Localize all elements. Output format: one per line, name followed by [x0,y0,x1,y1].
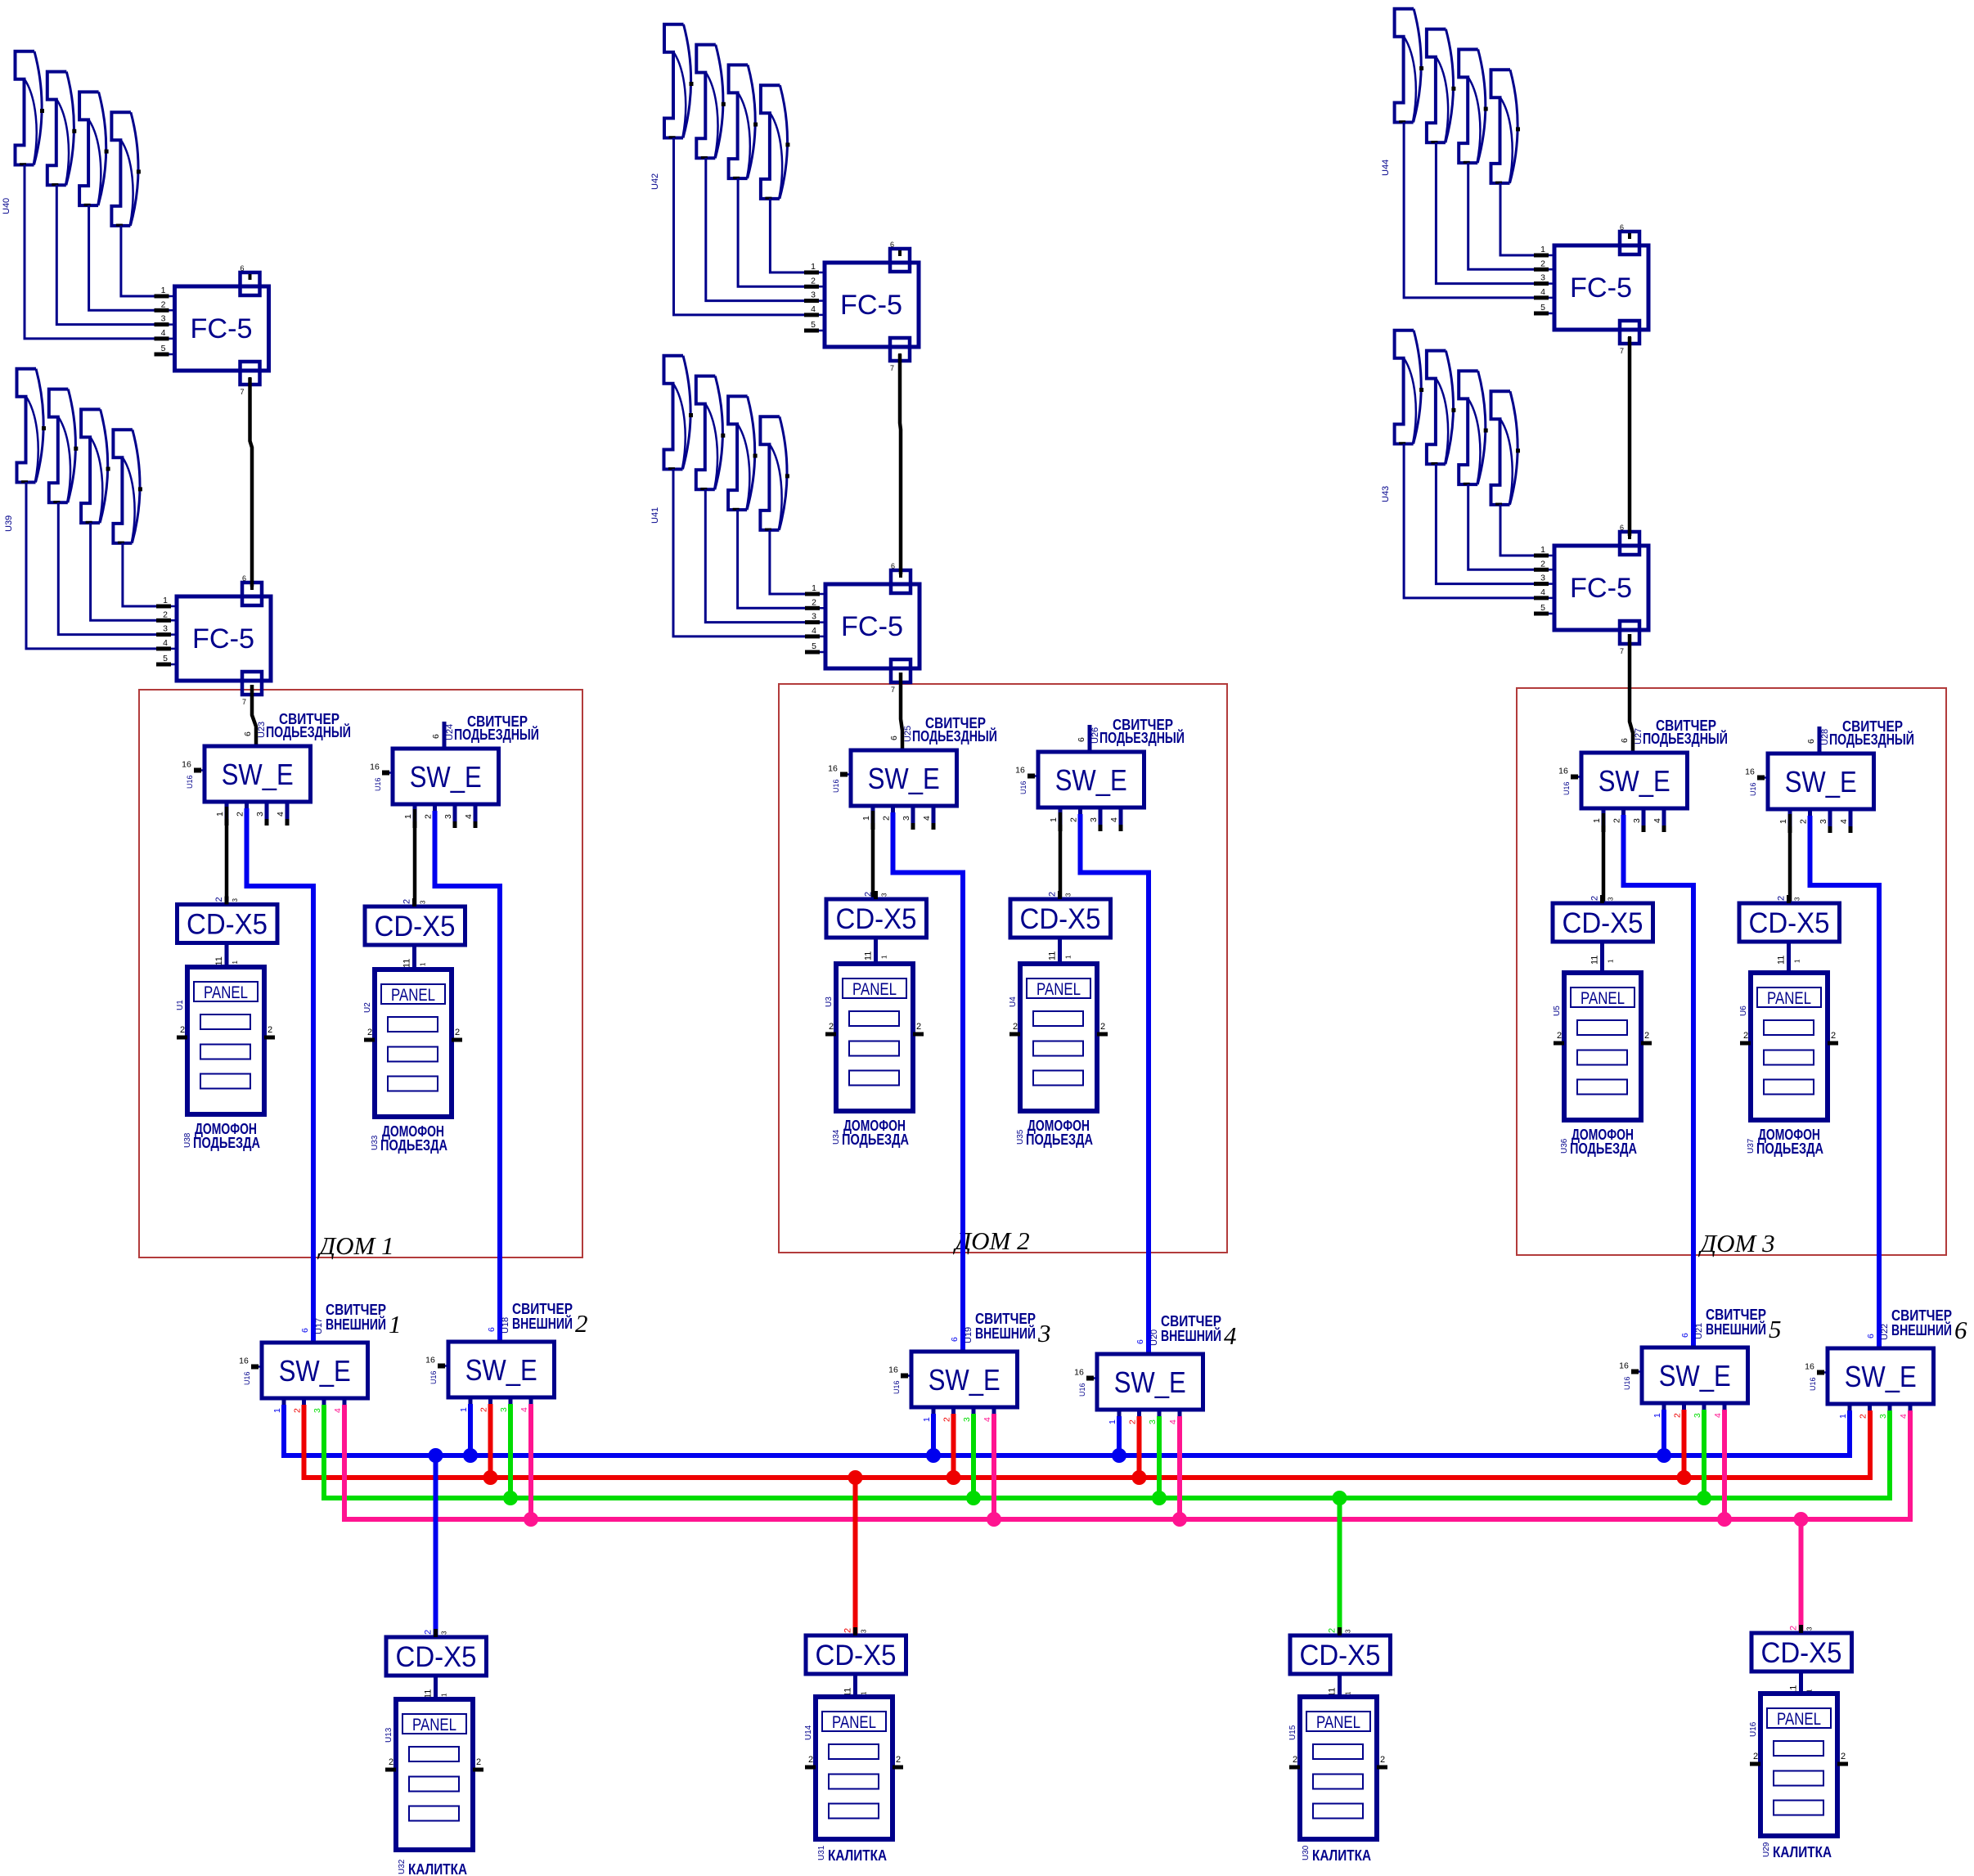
handset U41 tube 2 [696,376,726,490]
svg-text:1: 1 [1049,817,1059,822]
svg-text:6: 6 [1620,223,1624,232]
svg-text:2: 2 [1069,817,1079,822]
svg-text:4: 4 [1899,1414,1909,1419]
svg-text:11: 11 [402,959,412,968]
svg-text:PANEL: PANEL [391,986,435,1005]
svg-text:1: 1 [922,1417,932,1422]
svg-text:U15: U15 [1288,1725,1297,1740]
svg-text:4: 4 [161,328,166,338]
svg-text:1: 1 [1838,1414,1848,1419]
svg-text:U1: U1 [176,1000,185,1010]
wire U43 tube 2 to FC-5 [1436,464,1535,584]
svg-text:U14: U14 [804,1725,813,1740]
svg-text:SW_E: SW_E [222,758,294,791]
wire SW_E pin2 house 1R to external SW_E U18 (blue) [435,811,501,1342]
svg-text:2: 2 [1743,1031,1748,1041]
svg-text:7: 7 [890,364,894,372]
wire stub SW_E U24 pin 6 [443,722,447,749]
svg-text:U22: U22 [1880,1324,1890,1340]
svg-text:3: 3 [1065,893,1072,897]
svg-text:2: 2 [424,1630,434,1635]
svg-text:ПОДЬЕЗДА: ПОДЬЕЗДА [1026,1131,1093,1148]
svg-text:ВНЕШНИЙ: ВНЕШНИЙ [975,1325,1036,1342]
svg-text:ПОДЬЕЗДА: ПОДЬЕЗДА [193,1134,260,1151]
svg-text:КАЛИТКА: КАЛИТКА [1312,1847,1371,1864]
svg-text:2: 2 [268,1025,272,1035]
svg-text:CD-X5: CD-X5 [1300,1640,1381,1671]
handset U41 tube 3 [728,396,758,510]
svg-text:2: 2 [829,1022,834,1032]
wire blue bus to gate CD-X5 U13 [434,1455,438,1637]
svg-text:2: 2 [293,1408,303,1413]
label СВИТЧЕР ПОДЬЕЗДНЫЙ at U28 [1829,718,1914,748]
svg-text:4: 4 [1839,819,1849,824]
svg-text:4: 4 [1540,587,1545,597]
svg-text:1: 1 [861,816,871,821]
svg-text:16: 16 [1619,1361,1629,1371]
handset U43 tube 2 [1427,351,1456,465]
handset U44 tube 1 [1395,9,1424,123]
svg-text:7: 7 [891,686,895,694]
intercom panel house3R [1739,973,1838,1120]
svg-text:3: 3 [1608,897,1615,901]
svg-text:U16: U16 [1078,1383,1086,1397]
switcher SW_E U25 [828,726,956,830]
svg-text:16: 16 [1074,1368,1084,1378]
switcher SW_E U28 [1745,729,1873,833]
svg-text:2: 2 [1100,1022,1105,1032]
bus wire 3 (green) with end risers [324,1405,1890,1498]
svg-text:3: 3 [420,900,427,904]
svg-text:2: 2 [942,1417,952,1422]
svg-text:CD-X5: CD-X5 [1749,907,1830,939]
switcher SW_E U20 [1074,1329,1203,1433]
wire SW_E U20 pin4 to mag bus [1177,1416,1182,1519]
distributor CD-X5 house3R [1739,895,1840,965]
wire mag bus to gate CD-X5 U16 [1799,1519,1804,1633]
svg-text:1: 1 [1592,818,1602,823]
wire SW_E U18 pin2 to red bus [488,1404,493,1478]
junction mag bus / U21 pin4 [1717,1512,1732,1527]
svg-text:4: 4 [519,1407,529,1412]
svg-text:CD-X5: CD-X5 [1563,907,1644,939]
svg-text:6: 6 [890,241,894,249]
svg-text:4: 4 [276,812,286,817]
svg-text:6: 6 [487,1327,497,1332]
wire U39 tube 1 to FC-5 [26,482,157,649]
svg-text:2: 2 [1859,1414,1868,1419]
svg-text:3: 3 [881,893,888,897]
intercom panel gate-U13 [384,1699,483,1850]
svg-text:ВНЕШНИЙ: ВНЕШНИЙ [1891,1321,1952,1338]
wire CD-X5 to PANEL gate U13 [434,1676,438,1699]
svg-text:3: 3 [1037,1319,1051,1347]
junction mag bus / U20 pin4 [1172,1512,1187,1527]
svg-text:3: 3 [811,290,816,300]
intercom panel house1L [176,967,275,1114]
svg-text:5: 5 [812,641,816,651]
label КАЛИТКА U15 [1302,1845,1371,1864]
svg-text:1: 1 [232,960,239,965]
svg-text:6: 6 [891,562,895,570]
svg-text:6: 6 [1806,739,1816,744]
svg-text:U2: U2 [363,1002,372,1013]
svg-text:2: 2 [1644,1031,1649,1041]
svg-text:4: 4 [1540,287,1545,297]
svg-text:U43: U43 [1381,486,1391,502]
junction green bus / U20 pin3 [1152,1491,1167,1505]
svg-text:КАЛИТКА: КАЛИТКА [408,1860,467,1876]
wire U40 tube 4 to FC-5 [121,225,155,296]
distributor CD-X5 gate-U15 [1290,1627,1391,1697]
svg-text:ПОДЬЕЗДНЫЙ: ПОДЬЕЗДНЫЙ [454,726,539,743]
label СВИТЧЕР ПОДЬЕЗДНЫЙ at U26 [1099,717,1185,746]
svg-text:6: 6 [1077,737,1086,742]
svg-text:2: 2 [402,899,412,904]
svg-text:2: 2 [864,892,874,897]
bus wire 4 (magenta) with end risers [344,1405,1910,1519]
svg-text:ДОМ 1: ДОМ 1 [317,1231,393,1260]
svg-text:1: 1 [161,286,166,295]
wire SW_E U21 pin3 to green bus [1702,1410,1706,1498]
handset U41 tube 1 [664,356,694,470]
svg-text:6: 6 [1866,1334,1876,1338]
svg-text:1: 1 [272,1408,282,1413]
svg-text:3: 3 [812,612,816,622]
label СВИТЧЕР ВНЕШНИЙ 2 [512,1301,588,1338]
svg-text:3: 3 [1540,273,1545,283]
handset U40 tube 4 [111,112,141,226]
house block boundary ДОМ 1 [139,690,582,1257]
svg-text:3: 3 [313,1408,322,1413]
label СВИТЧЕР ВНЕШНИЙ 4 [1161,1313,1237,1350]
wire FC-5 B to SW_E U25 house 2 [901,673,902,750]
wire FC-5 A to FC-5 B house 1 [250,378,253,587]
svg-text:5: 5 [1540,603,1545,613]
wire U42 tube 2 to FC-5 [706,158,805,301]
wire U41 tube 4 to FC-5 [770,529,806,594]
svg-text:FC-5: FC-5 [192,623,254,655]
svg-text:2: 2 [1753,1752,1758,1761]
svg-text:2: 2 [811,276,816,286]
wire CD-X5 to PANEL house 2L [874,938,878,964]
svg-text:CD-X5: CD-X5 [1020,903,1101,935]
wire SW_E pin2 house 1L to external SW_E U17 (blue) [247,808,314,1343]
svg-text:3: 3 [255,812,265,817]
svg-text:U41: U41 [650,507,660,524]
wire SW_E U19 pin2 to red bus [951,1414,956,1478]
svg-text:2: 2 [236,812,245,817]
intercom panel house1R [363,969,462,1117]
label U41 [650,507,660,524]
wire CD-X5 to PANEL house 3L [1600,942,1604,973]
svg-text:16: 16 [182,760,191,770]
svg-text:4: 4 [464,814,474,819]
junction red bus / U20 pin2 [1132,1470,1147,1485]
wire SW_E pin1 to CD-X5 house 2R [1059,812,1063,899]
distributor CD-X5 house1L [178,897,278,966]
floor commutator FC-5 U43-B [1534,524,1648,655]
svg-text:1: 1 [812,583,816,593]
svg-text:6: 6 [431,734,441,739]
distributor CD-X5 gate-U14 [806,1627,906,1697]
svg-text:16: 16 [828,764,838,774]
wire stub SW_E U26 pin 6 [1088,725,1092,752]
svg-text:2: 2 [812,597,816,607]
handset U42 tube 4 [761,85,790,199]
svg-text:1: 1 [1608,959,1615,963]
svg-text:ПОДЬЕЗДНЫЙ: ПОДЬЕЗДНЫЙ [266,723,351,740]
svg-text:1: 1 [1794,959,1801,963]
svg-text:2: 2 [389,1757,393,1767]
handset U42 tube 2 [696,45,726,159]
svg-text:2: 2 [1841,1752,1846,1761]
label ДОМОФОН ПОДЬЕЗДА house 1L [183,1120,260,1151]
svg-text:U40: U40 [2,198,11,214]
label КАЛИТКА U13 [398,1859,467,1876]
svg-text:2: 2 [1590,896,1600,901]
svg-text:2: 2 [1540,259,1545,268]
switcher SW_E U19 [888,1327,1017,1431]
svg-text:СВИТЧЕР: СВИТЧЕР [1706,1307,1766,1323]
wire SW_E U18 pin4 to mag bus [528,1404,533,1519]
junction red bus / U21 pin2 [1677,1470,1692,1485]
svg-text:1: 1 [1108,1419,1117,1424]
distributor CD-X5 house2R [1010,891,1111,960]
wire U44 tube 4 to FC-5 [1500,182,1535,255]
label СВИТЧЕР ПОДЬЕЗДНЫЙ at U25 [912,715,997,745]
svg-text:ПОДЬЕЗДНЫЙ: ПОДЬЕЗДНЫЙ [1829,731,1914,748]
svg-text:ПОДЬЕЗДА: ПОДЬЕЗДА [1756,1140,1823,1157]
svg-text:7: 7 [242,698,246,706]
wire U39 tube 2 to FC-5 [58,502,157,635]
junction red bus / gate feed [848,1470,863,1485]
svg-text:U16: U16 [1749,782,1757,796]
svg-text:3: 3 [161,314,166,324]
wire SW_E U20 pin2 to red bus [1137,1416,1142,1478]
intercom panel gate-U14 [804,1697,903,1839]
svg-text:2: 2 [843,1628,853,1633]
svg-text:CD-X5: CD-X5 [836,903,917,935]
svg-text:U38: U38 [183,1132,192,1148]
label ДОМОФОН ПОДЬЕЗДА house 3R [1747,1126,1823,1157]
handset U43 tube 1 [1395,331,1424,444]
svg-text:7: 7 [1620,647,1624,655]
svg-text:ВНЕШНИЙ: ВНЕШНИЙ [326,1316,386,1333]
wire U41 tube 2 to FC-5 [705,489,806,623]
svg-text:16: 16 [425,1356,435,1365]
wire SW_E U21 pin2 to red bus [1682,1410,1687,1478]
svg-text:4: 4 [163,638,168,648]
wire CD-X5 to PANEL gate U16 [1799,1671,1803,1694]
svg-text:PANEL: PANEL [1036,980,1081,999]
svg-text:16: 16 [1745,767,1755,777]
svg-text:SW_E: SW_E [1599,764,1670,798]
svg-text:2: 2 [896,1755,901,1765]
svg-text:5: 5 [811,320,816,330]
label ДОМ 2 [952,1226,1029,1255]
svg-text:2: 2 [180,1025,185,1035]
svg-text:U21: U21 [1694,1323,1704,1339]
label ДОМ 3 [1697,1229,1774,1257]
svg-text:PANEL: PANEL [204,983,248,1002]
svg-text:СВИТЧЕР: СВИТЧЕР [1161,1313,1221,1329]
svg-text:PANEL: PANEL [1316,1713,1360,1732]
svg-text:U6: U6 [1739,1005,1748,1016]
svg-text:7: 7 [1620,347,1624,355]
handset U42 tube 1 [664,25,694,138]
wire U41 tube 1 to FC-5 [673,469,806,637]
svg-text:1: 1 [1540,545,1545,555]
svg-text:2: 2 [1013,1022,1018,1032]
svg-text:3: 3 [1148,1419,1158,1424]
switcher SW_E U21 [1619,1323,1747,1427]
handset U44 tube 3 [1459,49,1488,163]
svg-text:2: 2 [1048,892,1058,897]
svg-text:SW_E: SW_E [1114,1365,1186,1399]
handset U40 tube 3 [79,92,109,205]
svg-text:SW_E: SW_E [465,1353,537,1387]
switcher SW_E U18 [425,1317,554,1421]
svg-text:4: 4 [333,1408,343,1413]
svg-text:6: 6 [950,1337,960,1342]
svg-text:CD-X5: CD-X5 [187,909,268,941]
switcher SW_E U17 [239,1318,367,1422]
label U43 [1381,486,1391,502]
svg-text:16: 16 [1015,766,1025,776]
svg-text:2: 2 [479,1407,489,1412]
wire stub SW_E U28 pin 6 [1818,727,1822,754]
svg-text:1: 1 [163,596,168,605]
svg-text:U16: U16 [1749,1721,1758,1737]
wire U40 tube 1 to FC-5 [25,164,155,339]
svg-text:PANEL: PANEL [852,980,897,999]
wire SW_E U18 pin3 to green bus [508,1404,513,1498]
svg-text:5: 5 [163,654,168,664]
svg-text:1: 1 [215,812,225,817]
svg-text:U32: U32 [398,1859,407,1874]
svg-text:PANEL: PANEL [1777,1710,1821,1729]
house block boundary ДОМ 3 [1517,688,1946,1255]
svg-text:U39: U39 [4,515,14,532]
svg-text:ВНЕШНИЙ: ВНЕШНИЙ [1161,1327,1221,1344]
floor commutator FC-5 U41-B [805,562,920,694]
floor commutator FC-5 U42-A [804,241,919,372]
svg-text:4: 4 [1652,818,1662,823]
svg-text:3: 3 [962,1417,972,1422]
svg-text:3: 3 [1540,574,1545,583]
svg-text:2: 2 [1831,1031,1836,1041]
wire SW_E pin1 to CD-X5 house 3L [1602,813,1606,903]
svg-text:U16: U16 [429,1370,438,1384]
svg-text:2: 2 [163,610,168,619]
wire U39 tube 3 to FC-5 [91,523,157,621]
svg-text:2: 2 [808,1755,813,1765]
svg-text:3: 3 [232,898,239,902]
handset U43 tube 3 [1459,371,1488,484]
svg-text:16: 16 [888,1365,898,1375]
label СВИТЧЕР ПОДЬЕЗДНЫЙ at U23 [266,711,351,740]
svg-text:1: 1 [389,1310,402,1338]
handset U39 tube 2 [49,389,79,503]
svg-text:3: 3 [861,1629,868,1633]
svg-text:U30: U30 [1302,1845,1311,1860]
svg-text:7: 7 [241,388,245,396]
svg-text:6: 6 [1954,1316,1967,1344]
svg-text:U18: U18 [501,1317,510,1334]
svg-text:U16: U16 [1563,781,1571,795]
intercom panel gate-U15 [1288,1697,1387,1839]
svg-text:SW_E: SW_E [1785,765,1857,799]
handset U39 tube 3 [81,409,110,523]
svg-text:2: 2 [1540,559,1545,569]
svg-text:U16: U16 [186,775,194,789]
label ДОМОФОН ПОДЬЕЗДА house 2R [1016,1117,1093,1148]
svg-text:3: 3 [163,624,168,634]
svg-text:1: 1 [420,962,427,966]
svg-text:5: 5 [1540,303,1545,313]
svg-text:1: 1 [1065,955,1072,959]
svg-text:4: 4 [812,626,816,636]
svg-text:3: 3 [441,1631,448,1635]
wire U41 tube 3 to FC-5 [738,510,806,609]
wire SW_E pin2 house 2L to external SW_E U19 (blue) [893,812,964,1352]
svg-text:PANEL: PANEL [412,1716,456,1734]
svg-text:U42: U42 [650,173,660,190]
svg-text:U35: U35 [1016,1129,1025,1145]
label СВИТЧЕР ПОДЬЕЗДНЫЙ at U24 [454,713,539,743]
svg-text:2: 2 [1128,1419,1138,1424]
svg-text:КАЛИТКА: КАЛИТКА [828,1847,887,1864]
intercom panel house2R [1009,964,1108,1111]
svg-text:ПОДЬЕЗДНЫЙ: ПОДЬЕЗДНЫЙ [1643,730,1728,747]
svg-text:3: 3 [1806,1626,1814,1631]
svg-text:2: 2 [1380,1755,1385,1765]
svg-text:ВНЕШНИЙ: ВНЕШНИЙ [512,1315,573,1332]
svg-text:2: 2 [1557,1031,1562,1041]
svg-text:1: 1 [1540,245,1545,254]
svg-text:CD-X5: CD-X5 [816,1640,897,1671]
svg-text:2: 2 [161,299,166,309]
svg-text:U13: U13 [384,1727,393,1743]
junction green bus / U18 pin3 [503,1491,518,1505]
wire FC-5 A to FC-5 B house 2 [900,354,901,574]
junction mag bus / U19 pin4 [987,1512,1001,1527]
wire red bus to gate CD-X5 U14 [853,1478,858,1635]
svg-text:6: 6 [300,1328,310,1333]
wire SW_E pin1 to CD-X5 house 1L [225,807,229,905]
svg-text:1: 1 [881,955,888,959]
wire U43 tube 4 to FC-5 [1500,504,1535,556]
svg-text:3: 3 [499,1407,509,1412]
floor commutator FC-5 U40-A [155,264,269,396]
intercom panel house2L [825,964,924,1111]
svg-text:6: 6 [243,731,253,736]
svg-text:U17: U17 [314,1318,324,1334]
svg-text:ДОМ 3: ДОМ 3 [1697,1229,1774,1257]
svg-text:U3: U3 [825,996,834,1007]
wire SW_E U18 pin1 to blue bus [468,1404,473,1455]
svg-text:2: 2 [1789,1626,1799,1631]
svg-text:FC-5: FC-5 [1570,272,1632,304]
svg-text:U4: U4 [1009,996,1018,1007]
svg-text:ПОДЬЕЗДА: ПОДЬЕЗДА [842,1131,909,1148]
wire SW_E U21 pin4 to mag bus [1722,1410,1727,1519]
label ДОМ 1 [317,1231,393,1260]
wire green bus to gate CD-X5 U15 [1338,1498,1342,1635]
label U40 [2,198,11,214]
junction blue bus / U20 pin1 [1112,1448,1126,1463]
